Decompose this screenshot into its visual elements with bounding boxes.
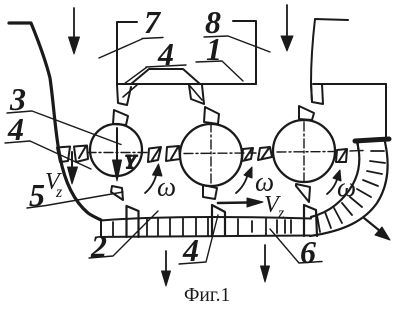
leader 2	[89, 211, 158, 258]
svg-text:Y: Y	[125, 152, 138, 173]
band hatch 8	[334, 208, 342, 223]
curved band inner arc	[311, 142, 359, 217]
axis line roller 2 vertical	[210, 123, 212, 187]
omega arrow 3	[327, 170, 341, 194]
tab right of roller 2	[242, 148, 253, 161]
belt scraper blade 3	[304, 205, 317, 236]
belt scraper blade 2	[212, 205, 225, 236]
roller 3	[273, 120, 335, 182]
band hatch 2	[370, 161, 385, 163]
bottom arrow 2	[261, 245, 270, 282]
tab left inner	[74, 146, 88, 163]
curved band outer arc	[310, 142, 388, 236]
tab left of roller 2	[166, 146, 180, 161]
blade bottom roller 1	[111, 186, 123, 200]
Y arrow in roller 1	[113, 128, 122, 181]
tab right of roller 1	[148, 147, 161, 162]
leader 5	[27, 192, 123, 208]
axis line roller 1	[87, 152, 147, 154]
right wall vertical	[385, 84, 387, 139]
leader 4 left	[5, 141, 91, 169]
leader 6	[270, 229, 322, 263]
band hatch 7	[342, 203, 352, 215]
tab left of roller 3	[258, 147, 272, 160]
svg-text:7: 7	[144, 4, 162, 40]
flap diagonal	[123, 85, 137, 97]
blade bottom roller 3	[296, 184, 310, 202]
svg-text:4: 4	[157, 36, 174, 72]
svg-text:6: 6	[300, 234, 316, 270]
svg-text:ω: ω	[157, 172, 176, 202]
left wall curve	[9, 23, 101, 220]
axis stub right of roller 3	[350, 150, 363, 153]
axis line roller 2	[184, 152, 246, 155]
leader 3	[7, 111, 121, 145]
svg-text:2: 2	[90, 228, 107, 264]
blade top roller 2	[204, 107, 219, 124]
hopper floor	[117, 83, 256, 85]
flap below right shelf	[311, 84, 323, 104]
svg-text:4: 4	[182, 232, 199, 268]
band cap left edge	[357, 143, 359, 149]
leader 4 bottom	[179, 215, 218, 264]
leader 7	[99, 38, 163, 59]
band hatch 1	[371, 150, 384, 152]
leader 1	[196, 61, 243, 81]
omega arrow 2	[236, 167, 252, 193]
tab right of roller 3	[336, 149, 347, 162]
bottom arrow 1	[162, 251, 171, 286]
belt left end	[100, 221, 102, 238]
hopper left wall	[117, 22, 137, 84]
svg-text:1: 1	[206, 31, 222, 67]
feed arrow left of roller 1	[68, 152, 78, 184]
deflector trapezoid 4	[131, 69, 200, 84]
belt ticks	[113, 218, 291, 237]
top feed arrow left	[69, 8, 80, 54]
omega arrow 1	[145, 164, 162, 193]
belt scraper blade 1	[127, 206, 139, 237]
svg-text:z: z	[55, 184, 63, 201]
hopper right wall	[233, 21, 256, 84]
axis stub left of roller 3	[250, 152, 256, 154]
svg-text:Фиг.1: Фиг.1	[184, 285, 230, 306]
band hatch 10	[317, 215, 320, 232]
axis line roller 3 vertical	[303, 122, 305, 184]
top feed arrow right	[281, 5, 293, 51]
belt bottom edge	[101, 235, 310, 237]
band hatch 6	[350, 197, 362, 207]
right chute shelf	[313, 83, 386, 85]
bottom right discharge arrow	[364, 218, 390, 240]
right chute wall	[311, 19, 348, 102]
Vz arrow center	[218, 198, 263, 207]
svg-text:z: z	[277, 205, 285, 222]
blade bottom roller 2	[203, 185, 217, 199]
band cap	[355, 139, 389, 141]
flap below hopper above roller 2	[189, 85, 204, 104]
tab left outer	[57, 147, 70, 163]
band hatch 9	[325, 212, 331, 228]
band hatch 4	[363, 180, 378, 186]
band hatch 5	[357, 189, 371, 197]
flap below hopper above roller 1	[117, 85, 131, 105]
svg-text:4: 4	[7, 111, 24, 147]
roller 2	[180, 124, 242, 186]
svg-text:ω: ω	[337, 172, 356, 202]
roller 1	[90, 124, 142, 176]
blade top roller 3	[299, 106, 314, 120]
band hatch 3	[367, 171, 382, 174]
svg-text:5: 5	[29, 177, 45, 213]
flap diagonal	[190, 86, 202, 100]
blade top roller 1	[113, 110, 128, 125]
leader 8	[204, 36, 270, 52]
belt top edge	[101, 217, 311, 221]
leader 4 top	[124, 65, 186, 84]
axis line roller 3	[277, 151, 338, 154]
